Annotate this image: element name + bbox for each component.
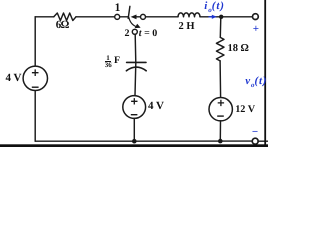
minus sign inside 4V left source bbox=[32, 86, 39, 88]
capacitor C curved bottom plate bbox=[126, 67, 146, 71]
terminal minus sign blue bbox=[252, 126, 258, 138]
resistor 18ohm zigzag bbox=[216, 37, 224, 61]
switch wire left arrowhead (points left toward contact 1) bbox=[131, 15, 137, 20]
label io(t) blue bbox=[204, 0, 225, 14]
figure bottom border bar bbox=[0, 144, 268, 147]
label capacitor value 1/36 fraction denominator bbox=[104, 62, 112, 69]
label vo(t) blue bbox=[245, 75, 267, 89]
bottom rail junction dot (right branch) bbox=[218, 139, 223, 144]
plus sign inside 12V source bbox=[218, 100, 224, 106]
wire contact 1 to blade bbox=[120, 16, 128, 18]
bottom rail stub to right edge bbox=[258, 140, 268, 142]
label 12 V bbox=[235, 104, 255, 115]
wire 12V source to bottom rail bbox=[219, 121, 221, 141]
resistor 6ohm zigzag bbox=[54, 13, 76, 21]
label capacitor value 1/36 fraction numerator bbox=[104, 55, 112, 62]
voltage source Vleft 4V circle bbox=[23, 66, 47, 90]
terminal plus sign blue bbox=[253, 23, 259, 35]
wire inductor to junction A bbox=[200, 16, 253, 18]
wire left branch lower (4V left to rail) bbox=[34, 90, 36, 141]
label 6 ohm bbox=[56, 19, 69, 31]
label t = 0 bbox=[139, 28, 157, 39]
wire 4V middle source to bottom rail bbox=[133, 118, 135, 141]
wire top-left vertical (left branch upper) bbox=[34, 17, 36, 66]
figure right border line bbox=[264, 0, 266, 147]
wire junction A down to resistor 18ohm bbox=[219, 17, 222, 38]
switch blade (vertical tick) bbox=[128, 6, 130, 18]
label 1 (switch position 1) bbox=[113, 2, 123, 14]
label 2 (switch position 2) bbox=[122, 28, 132, 39]
node contact 1 (open circle) bbox=[115, 14, 120, 19]
junction node A dot bbox=[219, 15, 223, 19]
terminal top-right open circle bbox=[253, 14, 259, 20]
minus sign inside 4V middle source bbox=[131, 114, 138, 116]
inductor L 2H humps bbox=[178, 13, 200, 17]
switch motion arc arrowhead bbox=[135, 24, 141, 28]
wire arrowbase to pole circle bbox=[136, 16, 140, 18]
bottom rail wire bbox=[35, 140, 252, 142]
label 18 ohm bbox=[228, 43, 249, 54]
minus sign inside 12V source bbox=[217, 115, 224, 117]
voltage source V2 12V circle bbox=[209, 98, 232, 121]
plus sign inside 4V middle source bbox=[131, 98, 137, 104]
switch motion arc toward node 2 bbox=[129, 17, 137, 27]
label 4 V (left source) bbox=[6, 72, 22, 84]
wire 18ohm to 12V source bbox=[219, 61, 222, 98]
switch pole circle bbox=[141, 14, 146, 19]
voltage source Vmid 4V circle bbox=[123, 96, 146, 119]
bottom rail junction dot (middle branch) bbox=[132, 139, 137, 144]
wire pole to inductor bbox=[146, 16, 178, 18]
capacitor C top plate bbox=[127, 61, 146, 63]
terminal bottom-right open circle bbox=[252, 138, 258, 144]
node 2 circle bbox=[132, 29, 137, 34]
wire top from corner to resistor R1 bbox=[35, 16, 54, 18]
blue current arrow io bbox=[209, 16, 213, 18]
wire resistor to switch contact 1 bbox=[76, 16, 115, 18]
label 2 H bbox=[179, 21, 195, 32]
wire node 2 down through capacitor bbox=[134, 34, 137, 95]
label capacitor unit F bbox=[114, 55, 120, 66]
label capacitor value 1/36 fraction bar bbox=[105, 61, 111, 62]
label 4 V (middle source) bbox=[148, 100, 164, 112]
plus sign inside 4V left source bbox=[32, 69, 39, 76]
